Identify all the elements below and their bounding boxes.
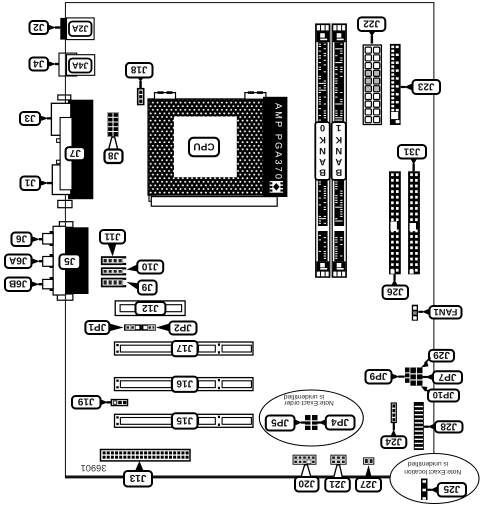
svg-text:J27: J27 [360,478,377,489]
svg-text:J19: J19 [77,396,94,407]
arrow J28 [424,423,435,429]
pointer J21 [334,465,343,478]
label J10 [137,260,163,273]
label J12 [136,302,166,315]
label J7 [66,147,85,160]
pointer J24 [390,423,396,437]
header J27 [363,457,374,464]
resistor strip J28 [414,402,424,450]
jumper block J19 [111,400,127,406]
svg-text:K: K [335,135,342,145]
svg-text:J29: J29 [433,349,450,360]
label J2A [69,22,92,37]
connector J2A body [60,18,94,40]
label FAN1 [430,306,462,319]
label J17 [172,341,198,356]
small IC on socket strip [269,180,284,193]
jumper block JP9 JP7 [405,368,423,386]
svg-text:A: A [335,157,342,167]
svg-text:J4: J4 [33,57,45,68]
DIMM slot BANK0 [316,24,330,277]
CPU socket top tab right [245,91,266,99]
arrow JP1 [109,324,123,332]
label J18 [126,63,153,78]
arrow JP7 [423,374,433,380]
label JP7 [433,371,462,384]
connector J23 [390,44,401,125]
note ellipse J25 [390,454,479,504]
svg-text:J17: J17 [176,342,193,353]
svg-text:JP1: JP1 [88,321,106,332]
label J27 [356,478,381,492]
pointer J20 [301,465,311,477]
label J5 [59,254,80,269]
arrow J19 [101,399,112,405]
header J24 [391,403,396,423]
pointer J27 [365,465,372,478]
J5 tab top [59,222,73,228]
jumper block JP4 JP5 [305,415,318,430]
svg-text:36901: 36901 [81,463,107,473]
svg-text:N: N [319,146,326,156]
pointer J22 [368,31,375,44]
label J22 [358,17,385,31]
label J6A [5,255,32,269]
header J21 [330,455,346,465]
header J25 [421,479,428,501]
header FAN1 [412,305,418,321]
svg-text:J6A: J6A [9,255,27,266]
svg-text:JP4: JP4 [331,416,349,427]
pointer J13 [135,461,144,471]
audio jack J6 port [43,231,54,246]
svg-text:AMP PGA370: AMP PGA370 [274,103,284,179]
label JP1 [85,321,109,334]
svg-text:JP9: JP9 [369,370,387,381]
wire board edge over bracket tabs [65,95,66,100]
svg-text:JP5: JP5 [271,416,289,427]
board outline right edge [433,2,434,454]
arrow J6B [31,281,43,287]
DIMM slot BANK1 [332,24,346,277]
arrow J4 to J4A [48,61,59,67]
header row J11 [101,256,127,265]
CPU socket top tab left [155,91,176,99]
arrow J10 [127,264,138,271]
label J4A [69,59,92,73]
label J16 [172,377,198,392]
label J19 [72,396,101,409]
arrow J1 to connector [40,180,52,186]
board outline top edge [65,2,435,3]
label J6B [5,278,31,292]
svg-text:J28: J28 [440,420,457,431]
svg-text:0: 0 [320,123,325,133]
svg-text:is unidentified: is unidentified [408,460,449,467]
svg-text:J16: J16 [176,378,193,389]
slot J16 [115,378,254,391]
slot J17 [115,342,254,355]
connector J3 body [51,103,70,135]
jumper block JP2 [142,324,156,330]
audio jack J6B port [43,277,54,291]
arrow J6 [32,236,43,242]
svg-text:1: 1 [336,123,341,133]
label CPU [189,138,219,156]
label J9 [138,281,157,295]
svg-text:J15: J15 [176,414,193,425]
label J8 [105,150,123,164]
arrow J3 to connector [40,116,51,122]
svg-text:J3: J3 [24,112,36,123]
label J6 [12,233,32,247]
svg-text:J25: J25 [443,483,460,494]
svg-text:J21: J21 [329,478,346,489]
svg-text:J8: J8 [108,150,120,161]
label JP4 [326,416,355,430]
board outline bottom edge [65,476,391,479]
svg-text:J1: J1 [24,177,36,188]
svg-text:J24: J24 [385,435,402,446]
label J3 [20,112,40,125]
svg-text:J12: J12 [142,302,159,313]
svg-text:B: B [335,168,342,178]
svg-text:Note:Exact order: Note:Exact order [283,399,333,406]
connector J4A body [59,53,95,76]
svg-text:J20: J20 [298,478,315,489]
connector strip J26 [389,171,401,274]
arrow JP10 [421,386,430,392]
board outline left edge [65,2,66,476]
connector J22 ATX power [363,45,381,125]
label J25 [438,483,466,497]
arrow J23 [401,83,413,90]
svg-text:J22: J22 [363,18,380,29]
arrow JP4 [317,419,326,426]
label BANK 0 [315,122,329,180]
wire board edge over J4A [65,53,66,76]
svg-text:J2A: J2A [71,24,88,34]
label J31 [398,145,426,159]
pointer J11 [108,243,117,256]
label J28 [435,420,463,432]
label J11 [100,230,125,244]
svg-text:A: A [319,157,326,167]
label JP10 [428,390,459,402]
label J26 [383,286,408,300]
connector block J5 rear [66,227,89,294]
connector block J7 [68,100,93,200]
svg-text:J6B: J6B [9,278,27,289]
svg-text:J18: J18 [130,64,147,75]
wire board edge over J5 tabs [65,222,66,228]
pointer J8 [109,137,118,150]
svg-text:FAN1: FAN1 [434,307,458,317]
svg-text:JP7: JP7 [438,371,456,382]
mount post upper [57,139,61,143]
arrow JP5 [295,419,306,426]
label BANK 1 [332,122,346,180]
svg-text:is unidentified: is unidentified [284,393,325,400]
connector J5 white body [53,226,66,295]
mount post lower [57,160,61,164]
bracket plate [60,118,72,190]
CPU socket bottom bar [149,195,277,206]
arrow JP9 [392,373,405,379]
connector strip J31 [408,171,420,274]
label J23 [413,80,441,94]
label J24 [381,435,406,448]
svg-text:K: K [319,135,326,145]
audio jack J6A port [43,254,54,268]
label J29 [429,349,454,361]
slot J15 [115,414,254,427]
label J20 [295,477,319,492]
svg-text:J4A: J4A [71,60,88,70]
label J1 [21,177,41,191]
header row J10 [101,267,127,275]
label J2 [30,21,49,34]
svg-text:J5: J5 [64,255,76,266]
label JP9 [366,370,392,384]
svg-text:J31: J31 [403,145,420,156]
svg-text:B: B [319,168,326,178]
pointer J26 [391,274,398,285]
label J13 [124,471,152,487]
connector J1 body [52,165,71,195]
arrow JP2 [156,324,170,332]
svg-text:CPU: CPU [193,140,214,151]
bracket tab bottom [58,200,72,207]
svg-text:J10: J10 [141,260,158,271]
header J13 [101,450,191,461]
arrow J6A [32,258,43,264]
svg-text:J11: J11 [104,230,121,241]
svg-text:Note:Exact location: Note:Exact location [404,468,461,475]
CPU socket PGA370 body [148,99,263,195]
label JP2 [169,321,196,334]
arrow J25 [428,486,438,493]
jumper block JP1 [124,324,142,330]
header row J9 [101,278,127,288]
svg-text:J9: J9 [141,281,153,292]
svg-text:JP2: JP2 [174,321,192,332]
svg-text:J2: J2 [33,21,45,32]
arrow J2 to J2A [48,25,60,31]
svg-text:N: N [335,146,342,156]
svg-text:J6: J6 [16,233,28,244]
CPU socket label strip AMP PGA370 [264,97,287,196]
J5 tab bottom [57,294,73,300]
svg-text:JP10: JP10 [433,390,455,400]
arrow J18 to header [137,78,143,89]
header J20 [293,455,317,465]
label J21 [325,478,350,492]
arrow J29 [421,358,431,368]
svg-text:J26: J26 [387,286,404,297]
note ellipse JP4 JP5 [259,390,363,446]
header J8 [108,113,119,137]
label J15 [172,413,198,428]
svg-text:J23: J23 [417,80,434,91]
svg-text:J7: J7 [69,147,81,158]
header J18 [138,89,144,105]
svg-text:J13: J13 [129,472,146,483]
label JP5 [266,416,295,431]
slot J12 [115,301,185,316]
arrow FAN1 [418,309,429,315]
pointer J31 [410,159,417,172]
label J4 [30,57,49,70]
arrow J9 [127,282,139,290]
bracket tab top [58,95,71,100]
